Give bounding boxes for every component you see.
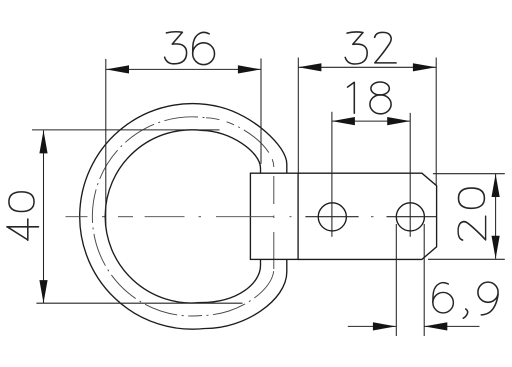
dimension 32 arrow right — [413, 63, 436, 71]
hole 1 circle — [318, 203, 346, 231]
D-ring outer contour top-right corner — [220, 107, 287, 173]
wire centerline dash-dot vertical through sleeve — [273, 176, 275, 269]
dimension 36 arrow right — [238, 65, 261, 73]
wire centerline dash-dot bottom-right corner — [202, 269, 274, 316]
dimension 40 extension line bottom — [36, 302, 242, 304]
hole 2 horizontal crosshair — [387, 216, 437, 218]
dimension 32 arrow left — [298, 63, 321, 71]
dimension 18 extension line right — [409, 113, 411, 237]
dimension 6,9 extension line left — [395, 224, 397, 336]
dimension 18 arrow left — [332, 117, 355, 125]
dimension 20 arrow top — [492, 174, 500, 197]
dimension 40 arrow bottom — [39, 280, 47, 303]
hole 1 horizontal crosshair — [305, 216, 358, 218]
D-ring inner contour left arc — [105, 130, 202, 303]
dimension 32 extension line left — [297, 58, 299, 174]
dimension 40 text rotated — [7, 192, 39, 240]
dimension 20 arrow bottom — [492, 236, 500, 259]
dimension 18 text — [348, 82, 392, 114]
dimension 32 extension line right — [435, 58, 437, 186]
dimension 20 text rotated — [458, 188, 485, 240]
dimension 6,9 text — [433, 282, 498, 318]
dimension 20 extension line top — [433, 173, 505, 175]
dimension 32 line — [298, 66, 436, 68]
dimension 18 arrow right — [387, 117, 410, 125]
dimension 18 line — [332, 120, 410, 122]
D-ring inner contour top-right corner — [202, 130, 261, 173]
dimension 32 text — [345, 32, 396, 64]
D-ring inner contour bottom-right corner — [200, 259, 261, 302]
dimension 18 extension line left — [331, 112, 333, 237]
main horizontal centerline dash-dot — [66, 216, 374, 218]
dimension 20 extension line bottom — [428, 258, 505, 260]
dimension 36 line — [106, 68, 261, 70]
dimension 6,9 line left segment — [348, 325, 396, 327]
dimension 20 line — [495, 174, 497, 259]
dimension 6,9 extension line right — [423, 224, 425, 336]
dimension 36 extension line left — [105, 59, 107, 227]
dimension 40 arrow top — [39, 130, 47, 153]
hole 2 circle — [396, 203, 424, 231]
dimension 6,9 line right segment — [424, 325, 479, 327]
D-ring outer contour bottom-right corner — [205, 259, 287, 328]
wire centerline dash-dot left arc — [92, 117, 206, 316]
dimension 36 extension line right — [260, 58, 262, 163]
wire centerline dash-dot top-right corner — [206, 118, 274, 167]
dimension 40 line — [43, 130, 45, 303]
dimension 36 arrow left — [106, 65, 129, 73]
dimension 40 extension line top — [32, 129, 220, 131]
dimension 36 text — [165, 32, 215, 65]
bracket plate outline with chamfers — [298, 173, 437, 259]
sleeve clamp rectangle — [250, 173, 298, 259]
dimension 6,9 arrow right — [424, 322, 447, 330]
dimension 6,9 arrow left — [373, 322, 396, 330]
D-ring outer contour left arc — [80, 104, 220, 330]
